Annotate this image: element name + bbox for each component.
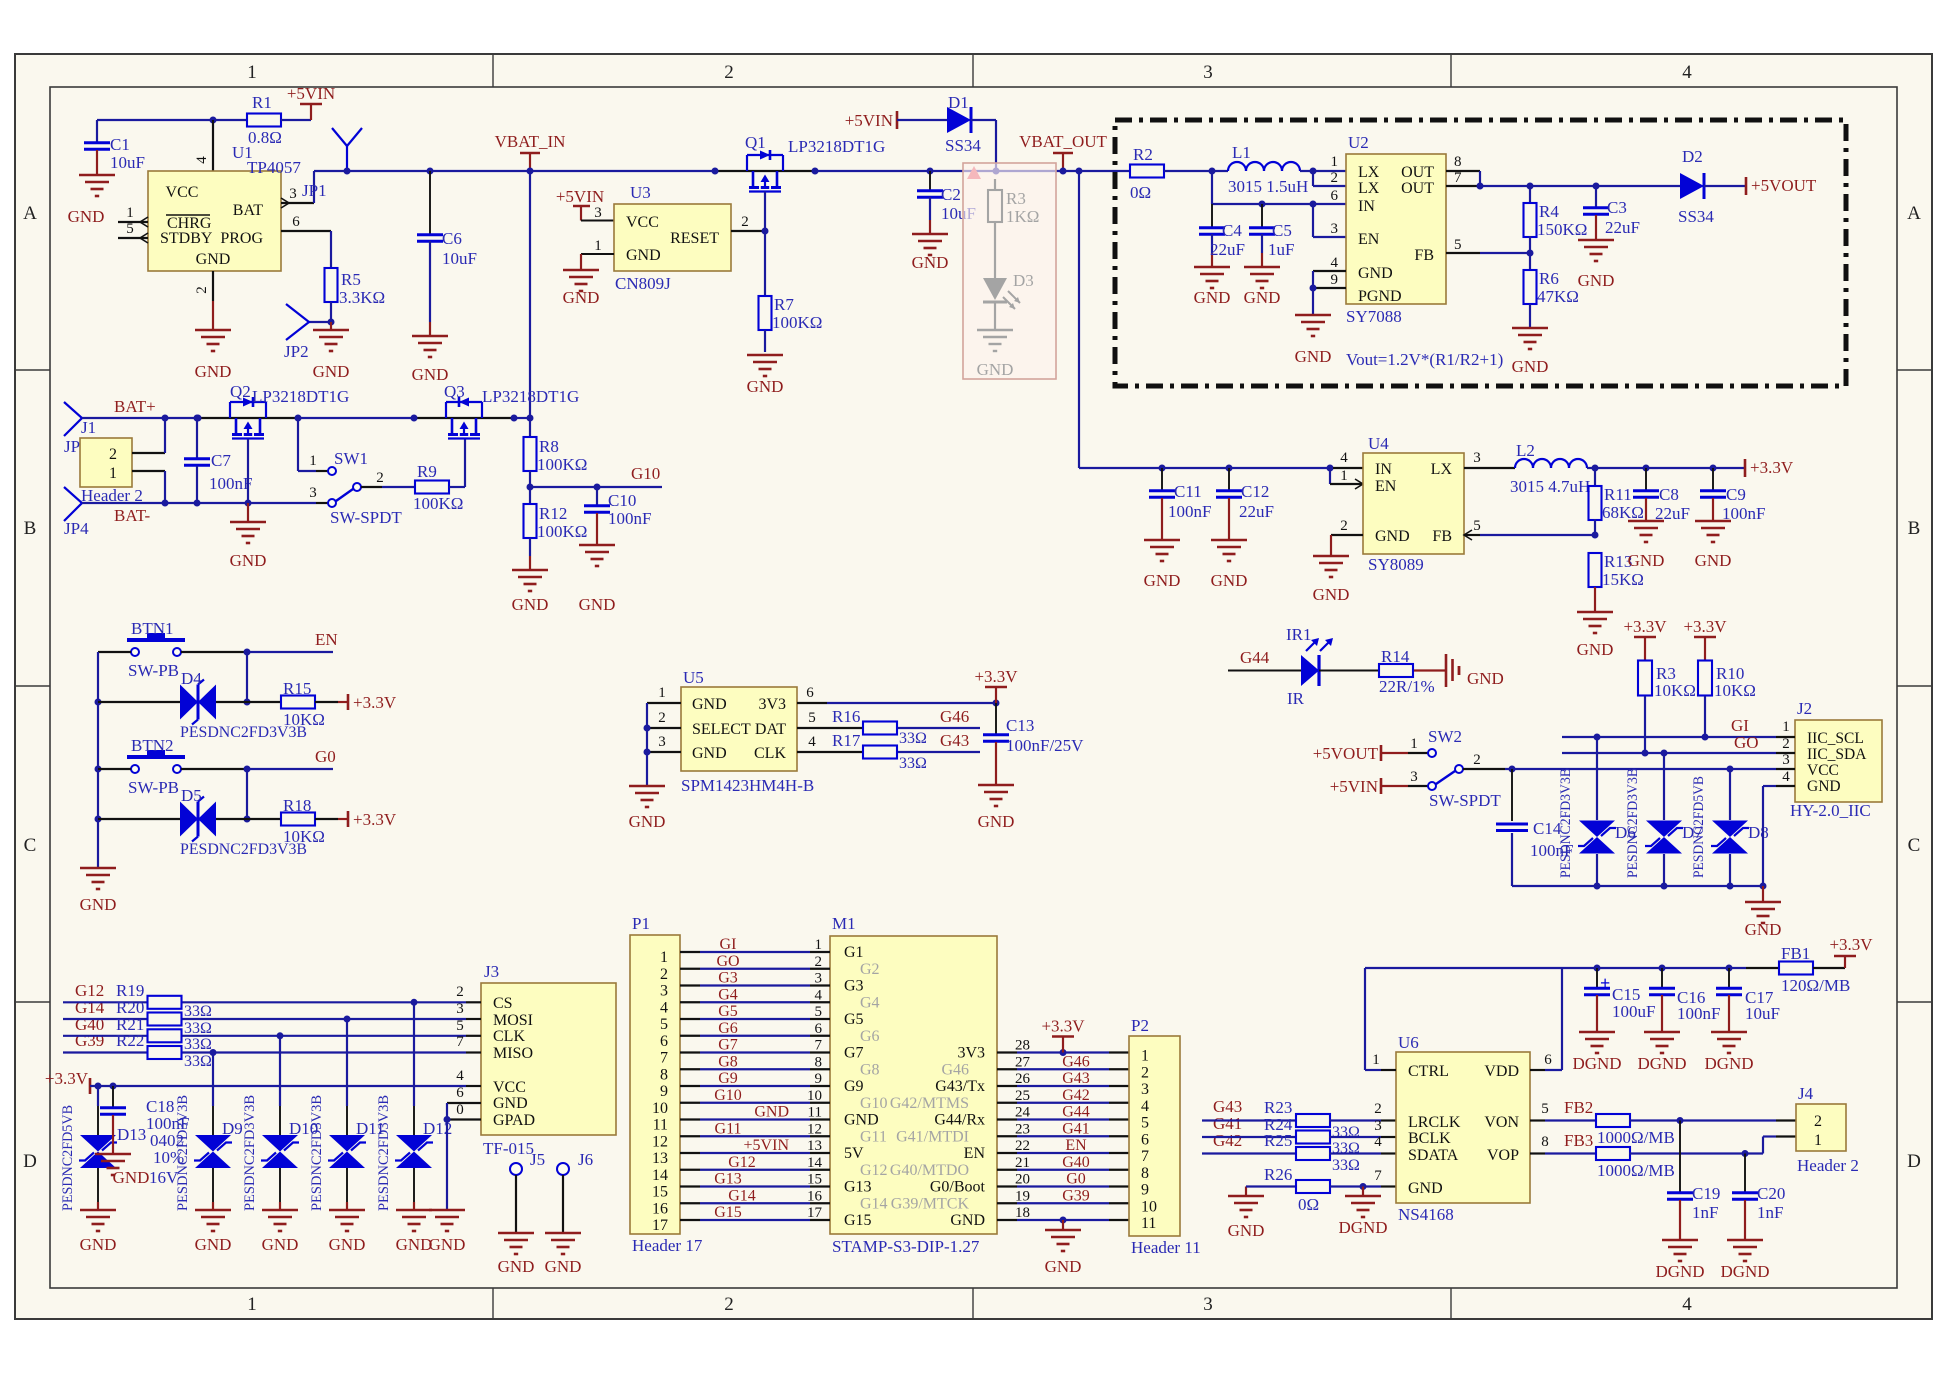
svg-text:D3: D3 — [1013, 271, 1034, 290]
capacitor C16 — [1661, 968, 1663, 988]
wire R13 to gnd — [1594, 587, 1596, 612]
switch SW1 SPDT — [328, 467, 336, 475]
ground DGND C20 — [1727, 1239, 1763, 1242]
svg-text:G11: G11 — [860, 1128, 887, 1145]
junction — [1677, 1117, 1684, 1124]
svg-text:2: 2 — [815, 954, 823, 970]
junction — [1659, 965, 1666, 972]
svg-text:PGND: PGND — [1358, 288, 1402, 305]
resistor R11 — [1594, 468, 1596, 487]
junction — [1360, 1183, 1367, 1190]
svg-text:15KΩ: 15KΩ — [1602, 570, 1644, 589]
wire R18 to +3.3V — [315, 818, 338, 820]
svg-text:GND: GND — [1244, 288, 1281, 307]
svg-text:GND: GND — [329, 1235, 366, 1254]
svg-text:GND: GND — [844, 1112, 879, 1129]
svg-text:LP3218DT1G: LP3218DT1G — [788, 137, 885, 156]
svg-text:LP3218DT1G: LP3218DT1G — [252, 387, 349, 406]
svg-text:1: 1 — [1372, 1052, 1380, 1068]
svg-text:33Ω: 33Ω — [184, 1053, 212, 1070]
svg-text:3: 3 — [1203, 62, 1213, 83]
svg-text:0.8Ω: 0.8Ω — [248, 128, 282, 147]
svg-text:GND: GND — [579, 595, 616, 614]
svg-text:2: 2 — [109, 446, 117, 463]
svg-text:FB: FB — [1414, 247, 1434, 264]
resistor R17 — [863, 746, 897, 759]
svg-text:GND: GND — [626, 247, 661, 264]
junction — [527, 415, 534, 422]
svg-text:C5: C5 — [1272, 221, 1292, 240]
wire IR1 to R14 — [1319, 670, 1379, 672]
pin J3.0 GPAD — [447, 1118, 481, 1120]
svg-text:3015 1.5uH: 3015 1.5uH — [1228, 177, 1308, 196]
svg-text:100nF: 100nF — [1677, 1004, 1720, 1023]
svg-text:BCLK: BCLK — [1408, 1130, 1451, 1147]
svg-text:33Ω: 33Ω — [1332, 1124, 1360, 1141]
svg-text:G0: G0 — [1066, 1171, 1086, 1188]
wire G44 to IR1 — [1228, 670, 1301, 672]
svg-text:4: 4 — [815, 987, 823, 1003]
svg-text:DAT: DAT — [755, 721, 786, 738]
svg-text:OUT: OUT — [1401, 164, 1434, 181]
svg-text:10: 10 — [652, 1100, 668, 1117]
antenna JP1 — [346, 146, 348, 171]
svg-text:68KΩ: 68KΩ — [1602, 503, 1644, 522]
svg-text:27: 27 — [1015, 1054, 1031, 1070]
svg-text:3: 3 — [658, 734, 666, 750]
ground BAT- — [247, 503, 249, 522]
svg-text:+3.3V: +3.3V — [1623, 617, 1667, 636]
ground U2 — [1295, 314, 1331, 317]
pin J3.2 — [466, 1001, 481, 1003]
svg-text:10uF: 10uF — [442, 249, 477, 268]
capacitor C9 — [1712, 468, 1714, 490]
junction — [210, 1049, 217, 1056]
svg-text:100nF: 100nF — [608, 509, 651, 528]
TVS diode D8 — [1729, 769, 1731, 820]
svg-text:C6: C6 — [442, 229, 462, 248]
svg-text:R2: R2 — [1133, 145, 1153, 164]
svg-text:SELECT: SELECT — [692, 721, 751, 738]
junction — [1310, 285, 1317, 292]
svg-text:9: 9 — [1141, 1182, 1149, 1199]
svg-text:GND: GND — [1295, 347, 1332, 366]
wire R7 to ground — [764, 330, 766, 352]
wire R25 to U6.4 — [1329, 1152, 1381, 1154]
svg-text:VBAT_OUT: VBAT_OUT — [1019, 132, 1107, 151]
resistor R7 — [759, 296, 772, 330]
svg-text:1: 1 — [1141, 1048, 1149, 1065]
svg-text:3: 3 — [815, 971, 823, 987]
svg-text:17: 17 — [807, 1205, 823, 1221]
wire G0 row — [98, 768, 131, 770]
svg-text:G39: G39 — [1062, 1187, 1090, 1204]
power +3.3V at R15 — [347, 694, 350, 710]
wire LX2 — [1312, 171, 1314, 186]
svg-text:13: 13 — [652, 1150, 668, 1167]
ground C12 — [1211, 539, 1247, 542]
junction — [1209, 168, 1216, 175]
diode D1 SS34 — [947, 107, 971, 133]
resistor R1 — [247, 114, 281, 127]
svg-text:J2: J2 — [1797, 699, 1812, 718]
svg-text:5: 5 — [456, 1018, 464, 1034]
svg-text:GND: GND — [1577, 640, 1614, 659]
svg-text:GND: GND — [1375, 528, 1410, 545]
svg-text:R25: R25 — [1264, 1131, 1292, 1150]
junction — [277, 1032, 284, 1039]
pin U1.5 STDBY — [118, 237, 148, 239]
svg-text:GND: GND — [512, 595, 549, 614]
svg-text:C20: C20 — [1757, 1184, 1785, 1203]
junction — [1327, 465, 1334, 472]
svg-text:4: 4 — [1782, 769, 1790, 785]
svg-text:1: 1 — [658, 685, 666, 701]
ground R13 — [1577, 611, 1613, 614]
svg-text:R18: R18 — [283, 796, 311, 815]
svg-text:3: 3 — [309, 485, 317, 501]
svg-text:GPAD: GPAD — [493, 1112, 535, 1129]
wire +5VIN to D1 — [897, 119, 947, 121]
svg-text:5: 5 — [660, 1016, 668, 1033]
wire R2 to L1 — [1164, 170, 1228, 172]
TVS diode D10 — [279, 1036, 281, 1106]
svg-text:GND: GND — [545, 1257, 582, 1276]
svg-text:IIC_SCL: IIC_SCL — [1807, 730, 1864, 747]
wire BAT- rail — [82, 502, 316, 504]
svg-text:JP4: JP4 — [64, 519, 89, 538]
svg-text:4: 4 — [1340, 450, 1348, 466]
svg-text:6: 6 — [815, 1021, 823, 1037]
svg-text:GND: GND — [747, 377, 784, 396]
svg-text:D2: D2 — [1682, 147, 1703, 166]
svg-text:10: 10 — [1141, 1198, 1157, 1215]
svg-text:4: 4 — [808, 734, 816, 750]
svg-text:DGND: DGND — [1338, 1218, 1387, 1237]
inductor L1 — [1228, 162, 1246, 171]
pin U6.5 VON — [1530, 1119, 1545, 1121]
wire BTN2 to D5 row — [246, 769, 248, 819]
wire R23 to U6.2 — [1329, 1119, 1381, 1121]
power +3.3V at R3 — [1644, 637, 1646, 661]
pin U3.2 RESET — [731, 230, 765, 232]
svg-text:4: 4 — [1141, 1098, 1149, 1115]
svg-text:1nF: 1nF — [1757, 1203, 1783, 1222]
svg-text:2: 2 — [1374, 1101, 1382, 1117]
svg-text:STDBY: STDBY — [160, 230, 213, 247]
svg-text:15: 15 — [652, 1184, 668, 1201]
junction — [644, 749, 651, 756]
svg-text:100nF: 100nF — [209, 474, 252, 493]
svg-text:20: 20 — [1015, 1172, 1030, 1188]
junction — [1727, 883, 1734, 890]
svg-text:+3.3V: +3.3V — [974, 667, 1018, 686]
wire gnd to R26 — [1246, 1185, 1296, 1187]
svg-text:150KΩ: 150KΩ — [1537, 220, 1587, 239]
pushbutton BTN1 — [131, 648, 139, 656]
svg-text:D9: D9 — [222, 1119, 243, 1138]
svg-text:FB1: FB1 — [1781, 944, 1810, 963]
svg-text:0: 0 — [456, 1102, 464, 1118]
pin U5.3 — [647, 751, 681, 753]
svg-text:G6: G6 — [860, 1028, 880, 1045]
wire R14 to gnd — [1414, 669, 1446, 671]
svg-text:6: 6 — [806, 685, 814, 701]
svg-text:JP2: JP2 — [284, 342, 309, 361]
svg-text:BAT+: BAT+ — [114, 397, 156, 416]
svg-text:G40: G40 — [1062, 1154, 1090, 1171]
svg-text:100nF: 100nF — [1168, 502, 1211, 521]
svg-text:D13: D13 — [117, 1125, 146, 1144]
svg-text:G44: G44 — [1062, 1104, 1090, 1121]
svg-text:GND: GND — [80, 895, 117, 914]
svg-text:G0: G0 — [315, 747, 336, 766]
junction — [527, 484, 534, 491]
svg-text:GND: GND — [1578, 271, 1615, 290]
svg-text:SW1: SW1 — [334, 449, 368, 468]
svg-text:9: 9 — [1331, 272, 1339, 288]
svg-text:GND: GND — [396, 1235, 433, 1254]
svg-text:4: 4 — [1331, 255, 1339, 271]
svg-text:G1: G1 — [844, 944, 864, 961]
testpoint J6 — [557, 1163, 569, 1175]
TVS diode D5 — [98, 818, 180, 820]
svg-text:2: 2 — [194, 286, 210, 294]
svg-text:GND: GND — [1358, 265, 1393, 282]
svg-text:GND: GND — [195, 1235, 232, 1254]
power +3.3V at R10 — [1704, 637, 1706, 661]
resistor R9 — [415, 481, 449, 494]
svg-text:GND: GND — [912, 253, 949, 272]
testpoint J5 — [510, 1163, 522, 1175]
svg-text:CLK: CLK — [754, 745, 786, 762]
svg-text:TF-015: TF-015 — [483, 1139, 534, 1158]
svg-text:GND: GND — [1194, 288, 1231, 307]
svg-text:GND: GND — [493, 1095, 528, 1112]
IC U4 SY8089 — [1363, 453, 1464, 554]
wire TVS bottom rail — [1512, 885, 1763, 887]
svg-text:R1: R1 — [252, 93, 272, 112]
pushbutton BTN2 — [131, 765, 139, 773]
wire G42 row — [1202, 1152, 1297, 1154]
svg-text:1: 1 — [1331, 154, 1339, 170]
wire R8 to node G10 — [529, 471, 531, 487]
svg-text:G39/MTCK: G39/MTCK — [891, 1195, 970, 1212]
svg-text:LX: LX — [1358, 164, 1380, 181]
svg-text:G43/Tx: G43/Tx — [935, 1078, 985, 1095]
svg-text:+3.3V: +3.3V — [353, 810, 397, 829]
svg-text:EN: EN — [1358, 231, 1380, 248]
svg-text:21: 21 — [1015, 1155, 1030, 1171]
pin U4.4 IN — [1333, 467, 1363, 469]
svg-text:1: 1 — [1410, 736, 1418, 752]
svg-text:Header 11: Header 11 — [1131, 1238, 1201, 1257]
svg-text:GND: GND — [977, 360, 1014, 379]
junction — [644, 725, 651, 732]
pin U5.1 — [647, 702, 681, 704]
resistor R13 — [1589, 553, 1602, 587]
svg-text:G13: G13 — [714, 1171, 742, 1188]
power +3.3V at R18 — [347, 811, 350, 827]
svg-text:2: 2 — [1473, 752, 1481, 768]
svg-text:G11: G11 — [715, 1120, 742, 1137]
junction — [762, 228, 769, 235]
svg-text:5: 5 — [1473, 518, 1481, 534]
svg-text:D4: D4 — [181, 669, 202, 688]
svg-text:7: 7 — [1454, 170, 1462, 186]
svg-text:DGND: DGND — [1572, 1054, 1621, 1073]
svg-text:SW-SPDT: SW-SPDT — [1429, 791, 1501, 810]
ground J5 — [498, 1232, 534, 1235]
svg-text:GND: GND — [113, 1168, 150, 1187]
svg-text:GND: GND — [1313, 585, 1350, 604]
pin U5.4 CLK — [797, 751, 863, 753]
svg-text:10uF: 10uF — [110, 153, 145, 172]
svg-text:1: 1 — [247, 1294, 257, 1315]
svg-text:5: 5 — [1454, 237, 1462, 253]
svg-text:1KΩ: 1KΩ — [1006, 207, 1039, 226]
svg-text:13: 13 — [807, 1138, 822, 1154]
wire R26 to U6.7 — [1330, 1185, 1381, 1187]
svg-text:J5: J5 — [530, 1150, 545, 1169]
svg-text:PESDNC2FD3V3B: PESDNC2FD3V3B — [1558, 768, 1574, 878]
pin U1.2 GND — [212, 271, 214, 301]
pin U6.1 CTRL wire — [1365, 1069, 1381, 1071]
svg-text:Vout=1.2V*(R1/R2+1): Vout=1.2V*(R1/R2+1) — [1346, 350, 1503, 369]
junction — [162, 500, 169, 507]
svg-text:J1: J1 — [81, 418, 96, 437]
pin U4.5 FB — [1464, 534, 1480, 536]
junction — [1509, 766, 1516, 773]
svg-text:12: 12 — [807, 1121, 822, 1137]
resistor R21 — [148, 1029, 182, 1042]
svg-text:FB2: FB2 — [1564, 1098, 1593, 1117]
ground R7 — [747, 354, 783, 357]
IC U6 NS4168 — [1396, 1052, 1530, 1203]
svg-text:G12: G12 — [728, 1154, 756, 1171]
svg-text:G7: G7 — [844, 1045, 864, 1062]
svg-text:1: 1 — [660, 949, 668, 966]
wire SW2 to VCC net — [1463, 768, 1505, 770]
ground J2 — [1762, 886, 1764, 902]
svg-text:C8: C8 — [1659, 485, 1679, 504]
svg-text:1: 1 — [1340, 468, 1348, 484]
wire BAT to main rail — [313, 171, 315, 203]
svg-text:GND: GND — [80, 1235, 117, 1254]
svg-text:CS: CS — [493, 995, 513, 1012]
pin J3.5 — [466, 1035, 481, 1037]
svg-text:GND: GND — [230, 551, 267, 570]
wire GND/GPAD join — [446, 1103, 448, 1210]
svg-text:C12: C12 — [1241, 482, 1269, 501]
svg-text:2: 2 — [376, 470, 384, 486]
wire Q1 gate to R7 — [764, 192, 766, 297]
junction — [1742, 1150, 1749, 1157]
svg-text:GND: GND — [1467, 669, 1504, 688]
svg-text:G4: G4 — [860, 994, 880, 1011]
svg-text:G8: G8 — [860, 1061, 880, 1078]
capacitor C11 — [1161, 468, 1163, 490]
junction — [1726, 965, 1733, 972]
svg-text:+3.3V: +3.3V — [1829, 935, 1873, 954]
pin U5.6 3V3 — [797, 702, 827, 704]
svg-text:SW2: SW2 — [1428, 727, 1462, 746]
svg-text:3: 3 — [289, 186, 297, 202]
svg-text:2: 2 — [658, 710, 666, 726]
svg-text:GND: GND — [68, 207, 105, 226]
svg-text:VCC: VCC — [626, 214, 659, 231]
svg-text:L2: L2 — [1516, 441, 1535, 460]
svg-text:C9: C9 — [1726, 485, 1746, 504]
svg-text:+5VOUT: +5VOUT — [1751, 176, 1817, 195]
svg-text:7: 7 — [1374, 1168, 1382, 1184]
svg-text:EN: EN — [1065, 1137, 1087, 1154]
svg-text:4: 4 — [660, 999, 668, 1016]
ground D9 — [195, 1209, 231, 1212]
svg-text:GND: GND — [692, 745, 727, 762]
wire VCC row — [90, 1085, 466, 1087]
junction — [95, 699, 102, 706]
wire FB to divider — [1480, 252, 1530, 254]
junction — [411, 999, 418, 1006]
svg-text:IIC_SDA: IIC_SDA — [1807, 746, 1867, 763]
svg-text:PESDNC2FD3V3B: PESDNC2FD3V3B — [242, 1095, 258, 1211]
svg-text:+: + — [1600, 973, 1610, 993]
ground D11 — [329, 1209, 365, 1212]
svg-text:28: 28 — [1015, 1038, 1030, 1054]
svg-text:G15: G15 — [714, 1204, 742, 1221]
ground sideways R14 — [1445, 654, 1448, 687]
svg-text:GND: GND — [692, 696, 727, 713]
svg-text:C11: C11 — [1174, 482, 1202, 501]
svg-text:SW-PB: SW-PB — [128, 778, 179, 797]
ground DGND C17 — [1711, 1031, 1747, 1034]
svg-text:C1: C1 — [110, 135, 130, 154]
svg-text:R16: R16 — [832, 707, 860, 726]
pin U1.6 PROG — [281, 230, 331, 232]
svg-text:100KΩ: 100KΩ — [772, 313, 822, 332]
wire R3 to GO — [1644, 696, 1646, 753]
ground R12 — [512, 569, 548, 572]
svg-text:BAT: BAT — [233, 202, 263, 219]
svg-text:22uF: 22uF — [1239, 502, 1274, 521]
wire Q2 to SW1 pin1 — [297, 418, 299, 471]
svg-text:7: 7 — [660, 1050, 668, 1067]
junction — [1592, 532, 1599, 539]
ferrite bead FB3 — [1596, 1147, 1630, 1160]
ground D10 — [262, 1209, 298, 1212]
junction — [1594, 965, 1601, 972]
svg-text:0Ω: 0Ω — [1130, 183, 1151, 202]
wire R17 to G43 — [898, 751, 980, 753]
TVS diode D13 — [97, 1086, 99, 1106]
ground at R26 — [1228, 1195, 1264, 1198]
resistor R22 — [148, 1046, 182, 1059]
ground C6 — [412, 335, 448, 338]
svg-text:7: 7 — [815, 1038, 823, 1054]
svg-text:G9: G9 — [844, 1078, 864, 1095]
svg-text:3: 3 — [1203, 1294, 1213, 1315]
svg-text:J6: J6 — [578, 1150, 593, 1169]
capacitor C17 — [1728, 968, 1730, 988]
svg-text:12: 12 — [652, 1133, 668, 1150]
junction — [1702, 734, 1709, 741]
svg-text:BTN1: BTN1 — [131, 619, 174, 638]
junction — [244, 699, 251, 706]
ground D13 — [80, 1209, 116, 1212]
junction — [162, 415, 169, 422]
wire LX out to +3.3V — [1587, 467, 1745, 469]
